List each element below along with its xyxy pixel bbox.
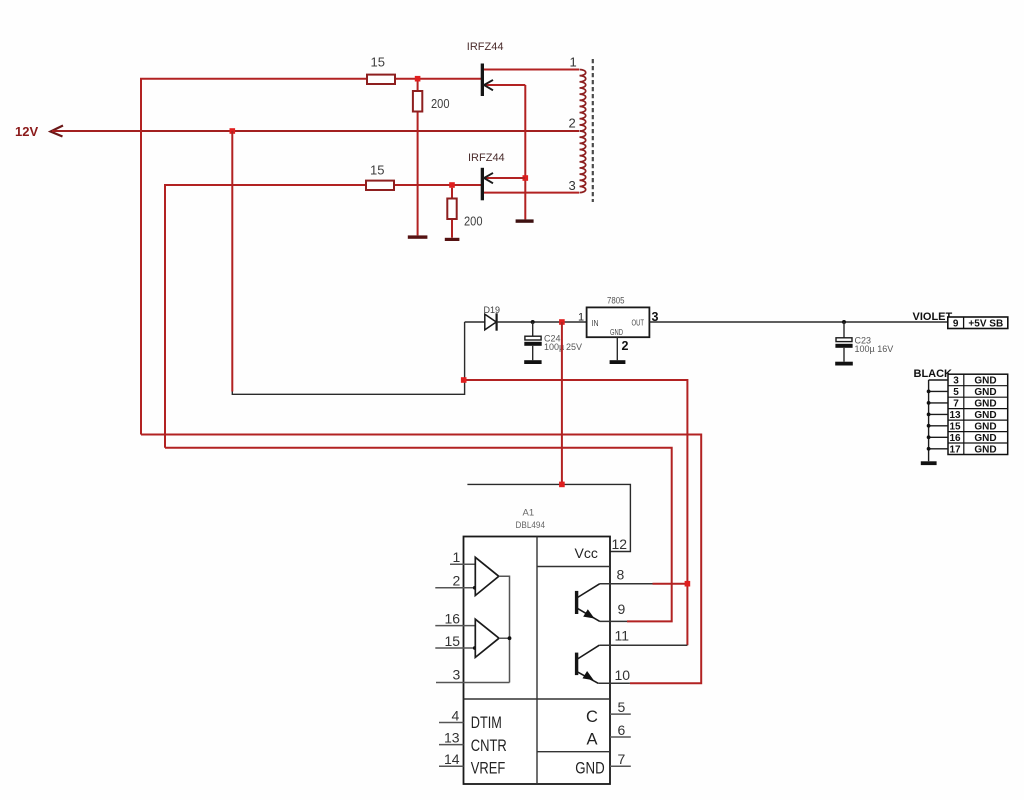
wire 7805 GND lead xyxy=(616,337,618,360)
svg-text:1: 1 xyxy=(453,549,461,565)
transistor Q3 (pins 8/9) xyxy=(575,584,600,622)
svg-text:7: 7 xyxy=(618,751,626,767)
svg-text:2: 2 xyxy=(622,339,629,353)
wire gate1 net (MOSFET1 gate to pin 10) xyxy=(141,79,701,684)
svg-text:GND: GND xyxy=(974,387,996,398)
junction gate2/200 xyxy=(449,182,455,188)
wire 12V feed to D19 (black part) xyxy=(232,322,464,394)
op-amp buffer 1 xyxy=(475,557,499,595)
pin 16 stub xyxy=(435,625,475,627)
resistor R 200 (bottom) xyxy=(451,188,453,238)
pin 14 stub xyxy=(439,765,464,767)
svg-text:14: 14 xyxy=(444,751,460,767)
svg-text:7: 7 xyxy=(953,399,959,410)
transistor Q2 IRFZ44 (bottom) xyxy=(481,168,579,201)
svg-text:C: C xyxy=(586,708,598,726)
svg-text:16: 16 xyxy=(445,611,461,627)
junction on 12V rail xyxy=(230,128,236,134)
connector GND table xyxy=(948,374,1008,455)
pin 11 lead xyxy=(599,644,687,646)
pin 13 stub xyxy=(439,744,464,746)
pin 6 stub xyxy=(610,736,631,738)
svg-text:D19: D19 xyxy=(484,305,501,315)
svg-text:1: 1 xyxy=(578,312,584,324)
pin 3 stub xyxy=(436,682,510,684)
wire D19 cathode to 7805 IN xyxy=(497,321,587,323)
svg-text:15: 15 xyxy=(949,422,961,433)
svg-text:12: 12 xyxy=(612,536,628,552)
svg-text:8: 8 xyxy=(617,566,625,582)
ground (under 200 top) xyxy=(408,235,428,238)
ground (C24) xyxy=(524,360,541,364)
svg-text:4: 4 xyxy=(452,707,460,723)
diode D19 xyxy=(485,313,497,330)
ground (C23) xyxy=(835,362,853,366)
svg-text:OUT: OUT xyxy=(632,318,645,327)
wire GND bus of connector xyxy=(927,380,948,461)
svg-text:BLACK: BLACK xyxy=(914,368,953,380)
IC divider vertical xyxy=(536,537,538,785)
svg-text:3: 3 xyxy=(953,376,959,387)
pin 4 stub xyxy=(439,722,464,724)
svg-text:13: 13 xyxy=(949,410,961,421)
transistor Q1 IRFZ44 (top) xyxy=(481,64,579,97)
svg-text:25V: 25V xyxy=(566,342,582,352)
junction Vcc feed / pin 12 wire xyxy=(559,482,565,488)
junction pin 8 / collector net xyxy=(685,581,691,587)
resistor R 15 (top) xyxy=(367,75,395,84)
pin 1 stub xyxy=(450,563,475,565)
svg-text:CNTR: CNTR xyxy=(471,737,507,755)
svg-text:7805: 7805 xyxy=(607,296,625,306)
svg-text:VIOLET: VIOLET xyxy=(913,311,953,323)
capacitor C24 xyxy=(524,320,541,360)
svg-text:GND: GND xyxy=(974,433,996,444)
svg-text:VREF: VREF xyxy=(471,759,506,777)
svg-text:GND: GND xyxy=(575,759,605,777)
wire 12V rail xyxy=(52,130,579,132)
svg-text:12V: 12V xyxy=(15,124,38,139)
wire collectors net (D19 anode to pins 8,11) xyxy=(465,380,688,645)
svg-text:5: 5 xyxy=(953,387,959,398)
svg-text:9: 9 xyxy=(953,318,959,329)
IC divider lower section xyxy=(464,698,611,700)
svg-text:200: 200 xyxy=(464,214,483,229)
resistor R 200 (top) xyxy=(417,82,419,236)
svg-text:2: 2 xyxy=(453,572,461,588)
capacitor C23 xyxy=(835,320,852,362)
svg-text:GND: GND xyxy=(974,422,996,433)
pin 5 stub xyxy=(610,713,631,715)
svg-text:16: 16 xyxy=(949,433,961,444)
junction 7805 input / Vcc feed xyxy=(559,319,565,325)
pin 7 stub xyxy=(610,765,631,767)
wire 12V feed to D19 (red part) xyxy=(231,131,233,392)
wire 7805 OUT to +5V SB xyxy=(649,321,947,323)
svg-text:+5V SB: +5V SB xyxy=(968,318,1003,329)
svg-text:11: 11 xyxy=(615,627,630,643)
junction gate1/200 xyxy=(415,76,421,82)
svg-text:IN: IN xyxy=(592,319,599,328)
svg-text:6: 6 xyxy=(618,722,626,738)
IC divider GND cell xyxy=(537,751,610,753)
svg-text:3: 3 xyxy=(453,667,461,683)
pin 15 stub xyxy=(435,647,475,649)
svg-text:A: A xyxy=(587,731,598,749)
pin 9 lead xyxy=(600,620,627,622)
svg-text:DTIM: DTIM xyxy=(471,714,502,732)
svg-text:10: 10 xyxy=(615,667,631,683)
svg-text:3: 3 xyxy=(569,178,576,193)
svg-text:GND: GND xyxy=(974,376,996,387)
pin 10 lead xyxy=(598,682,630,684)
svg-text:15: 15 xyxy=(371,55,385,70)
svg-text:A1: A1 xyxy=(523,508,535,519)
svg-text:GND: GND xyxy=(610,328,623,337)
transformer T1 winding upper xyxy=(580,70,586,132)
svg-text:100µ 16V: 100µ 16V xyxy=(855,344,894,354)
svg-text:GND: GND xyxy=(974,399,996,410)
ground (sources) xyxy=(516,219,534,222)
wire gate2 net (MOSFET2 gate to pin 9) xyxy=(165,185,672,621)
connector +5V SB xyxy=(948,317,1008,329)
svg-text:IRFZ44: IRFZ44 xyxy=(467,41,504,53)
12V arrow xyxy=(51,126,64,137)
svg-text:5: 5 xyxy=(618,699,626,715)
transformer core (dashed) xyxy=(592,59,594,202)
wire source bus to ground xyxy=(524,85,526,219)
ground (connector) xyxy=(921,461,937,465)
svg-text:13: 13 xyxy=(444,729,460,745)
svg-text:15: 15 xyxy=(370,163,384,178)
svg-text:GND: GND xyxy=(974,445,996,456)
ground (7805) xyxy=(610,360,626,364)
svg-text:15: 15 xyxy=(445,633,461,649)
pin 8 lead xyxy=(600,583,653,585)
svg-text:2: 2 xyxy=(569,116,576,131)
wire Vcc feed (red vertical) xyxy=(561,322,563,484)
wire buffer outputs xyxy=(499,576,510,682)
IC divider Vcc cell xyxy=(537,566,610,568)
svg-text:Vcc: Vcc xyxy=(575,545,598,561)
wire Vcc to pin 12 xyxy=(467,484,630,551)
svg-text:200: 200 xyxy=(431,96,450,111)
svg-text:GND: GND xyxy=(974,410,996,421)
IC U A1 DBL494 box xyxy=(464,537,611,785)
svg-text:1: 1 xyxy=(570,55,577,70)
svg-text:IRFZ44: IRFZ44 xyxy=(468,152,505,164)
junction source/gate-drive xyxy=(523,175,529,181)
svg-text:9: 9 xyxy=(618,601,626,617)
transformer T1 winding lower xyxy=(580,131,586,193)
ground (under 200 bottom) xyxy=(445,238,460,241)
wire D19 anode xyxy=(465,321,485,323)
resistor R 15 (bottom) xyxy=(366,181,394,190)
regulator U 7805 xyxy=(587,307,650,337)
op-amp buffer 2 xyxy=(475,619,499,657)
svg-text:DBL494: DBL494 xyxy=(516,520,546,531)
svg-text:17: 17 xyxy=(949,445,961,456)
pin 2 stub xyxy=(435,587,475,589)
transistor Q4 (pins 11/10) xyxy=(575,645,599,683)
junction D19 anode / collector net xyxy=(461,377,467,383)
